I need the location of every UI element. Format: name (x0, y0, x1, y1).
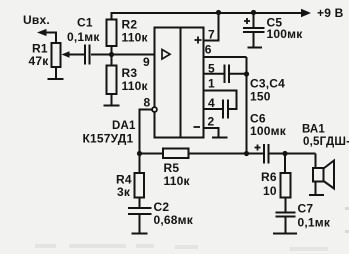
svg-text:DA1: DA1 (112, 120, 136, 132)
svg-text:3к: 3к (117, 185, 131, 199)
svg-text:0,1мк: 0,1мк (298, 216, 331, 230)
svg-text:0,1мк: 0,1мк (67, 30, 100, 44)
svg-text:5: 5 (208, 62, 215, 76)
svg-text:100мк: 100мк (267, 27, 304, 41)
svg-text:10: 10 (263, 184, 277, 198)
svg-text:0,5ГДШ-2: 0,5ГДШ-2 (303, 136, 349, 148)
svg-text:110к: 110к (164, 174, 191, 188)
svg-text:+9 В: +9 В (317, 6, 344, 20)
svg-text:8: 8 (144, 96, 151, 110)
svg-text:R5: R5 (164, 161, 180, 175)
svg-text:C7: C7 (298, 202, 314, 216)
svg-text:C2: C2 (154, 200, 170, 214)
svg-text:C1: C1 (77, 16, 93, 30)
svg-text:110к: 110к (122, 31, 149, 45)
svg-text:R2: R2 (122, 18, 138, 32)
svg-text:ВА1: ВА1 (302, 124, 325, 136)
svg-text:R3: R3 (122, 66, 138, 80)
svg-text:К157УД1: К157УД1 (83, 132, 134, 146)
svg-text:1: 1 (208, 77, 215, 91)
svg-text:0,68мк: 0,68мк (154, 213, 194, 227)
svg-text:9: 9 (143, 55, 150, 69)
svg-text:C3,C4: C3,C4 (250, 77, 285, 91)
svg-text:47к: 47к (29, 54, 50, 68)
svg-text:7: 7 (208, 28, 215, 42)
svg-text:150: 150 (250, 90, 271, 104)
svg-text:2: 2 (208, 115, 215, 129)
svg-text:110к: 110к (122, 79, 149, 93)
svg-text:6: 6 (205, 43, 212, 57)
svg-text:R6: R6 (261, 170, 277, 184)
svg-text:100мк: 100мк (250, 124, 287, 138)
svg-text:Uвх.: Uвх. (23, 13, 50, 27)
svg-text:4: 4 (208, 96, 215, 110)
